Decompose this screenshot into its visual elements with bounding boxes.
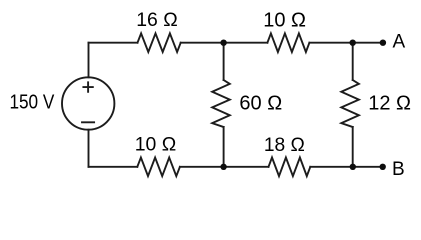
label node B <box>392 159 405 180</box>
label node A <box>392 32 405 53</box>
resistor R6 12 ohm <box>341 80 359 127</box>
label 60 ohm <box>239 93 282 115</box>
junction top-right node <box>350 40 356 46</box>
resistor R2 10 ohm top <box>267 33 309 52</box>
label 150 V <box>9 90 54 113</box>
svg-text:A: A <box>392 32 405 53</box>
wire top-middle segment <box>181 42 224 44</box>
voltage source V1 150 V <box>62 77 114 129</box>
resistor R5 60 ohm <box>212 80 230 127</box>
svg-text:16 Ω: 16 Ω <box>136 9 177 31</box>
wire right branch lower <box>352 127 354 167</box>
wire top-left segment <box>89 42 138 44</box>
wire stub to terminal B <box>353 166 383 168</box>
wire stub to terminal A <box>353 42 383 44</box>
svg-text:12 Ω: 12 Ω <box>368 93 411 115</box>
junction bottom-middle node <box>220 164 226 170</box>
resistor R1 16 ohm <box>138 33 181 52</box>
svg-text:B: B <box>392 159 405 180</box>
label 12 ohm <box>368 93 411 115</box>
wire middle branch upper <box>223 43 225 80</box>
svg-text:150 V: 150 V <box>9 90 54 113</box>
wire top segment node C to 10 ohm <box>224 42 268 44</box>
wire left branch lower <box>88 130 90 167</box>
terminal dot node A <box>380 40 386 46</box>
wire top-right segment <box>309 42 352 44</box>
wire bottom-right segment <box>310 166 353 168</box>
label 18 ohm <box>264 135 305 156</box>
terminal dot node B <box>380 164 386 170</box>
wire left branch upper <box>88 43 90 78</box>
junction top-middle node <box>220 40 226 46</box>
label 16 ohm <box>136 9 177 31</box>
resistor R4 18 ohm <box>269 158 311 177</box>
wire bottom-left segment <box>89 166 138 168</box>
label 10 ohm top <box>263 9 306 31</box>
junction bottom-right node <box>350 164 356 170</box>
label 10 ohm bottom <box>135 134 176 156</box>
svg-text:18 Ω: 18 Ω <box>264 135 305 156</box>
wire right branch upper <box>352 43 354 80</box>
svg-text:10 Ω: 10 Ω <box>135 134 176 156</box>
resistor R3 10 ohm bottom <box>137 158 180 177</box>
svg-text:10 Ω: 10 Ω <box>263 9 306 31</box>
wire bottom-middle segment <box>180 166 269 168</box>
svg-text:60 Ω: 60 Ω <box>239 93 282 115</box>
wire middle branch lower <box>223 127 225 167</box>
